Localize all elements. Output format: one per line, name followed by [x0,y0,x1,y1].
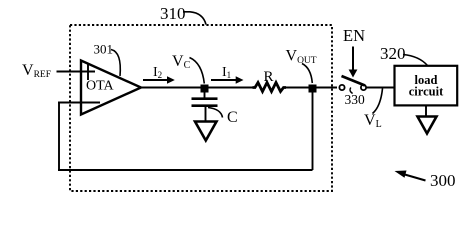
pointer curve from 310 to box [183,12,206,25]
svg-text:330: 330 [345,92,366,107]
node VC junction [201,85,209,93]
wire feedback right vertical [312,88,314,170]
load circuit block 320 [395,66,458,106]
svg-text:300: 300 [430,171,456,190]
svg-text:320: 320 [380,44,406,63]
svg-text:301: 301 [94,42,114,57]
current arrow I2 [143,76,175,83]
capacitor C [192,92,218,121]
svg-text:OTA: OTA [86,79,115,94]
current arrow I1 [211,76,244,83]
ground below load circuit [418,117,437,134]
svg-text:C: C [227,109,238,126]
wire switch to load circuit [366,87,395,89]
switch 330 [339,76,366,90]
pointer curve from 301 to triangle [111,50,120,77]
wire VOUT node to switch [316,87,337,89]
plus sign non-inverting input [87,64,89,81]
node VOUT junction [309,85,317,93]
svg-text:EN: EN [343,26,365,45]
wire resistor to VOUT node [285,87,312,89]
svg-text:circuit: circuit [409,84,444,98]
pointer curve from C to capacitor [208,108,223,118]
svg-text:310: 310 [160,4,186,23]
wire inverting input [58,102,100,104]
ground below capacitor [195,122,217,141]
wire feedback bottom horizontal [58,169,313,171]
wire OTA output to resistor [141,87,253,89]
EN control arrow [349,47,358,78]
dashed enclosure box 310 [70,25,332,191]
wire VREF to non-inverting input [57,71,96,73]
pointer curve from 320 to load box [403,55,428,66]
pointer curve from 330 to switch [350,88,353,94]
wire feedback left vertical [58,103,60,171]
op-amp U1 OTA triangle [81,61,141,115]
pointer curve from VL to wire [373,89,383,114]
pointer curve from VC to node [190,58,205,84]
wire load circuit to ground [425,106,427,117]
pointer curve from VOUT to node [302,64,312,84]
resistor R [253,83,287,92]
figure arrow 300 [395,171,426,181]
